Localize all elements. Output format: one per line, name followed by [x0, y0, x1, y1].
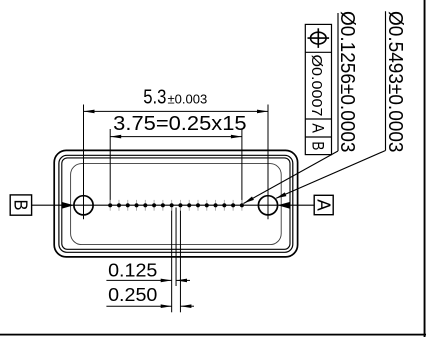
svg-text:B: B	[308, 141, 327, 150]
svg-text:A: A	[313, 199, 333, 211]
svg-text:Ø0.0007: Ø0.0007	[308, 55, 325, 117]
svg-text:A: A	[308, 123, 327, 133]
svg-text:Ø0.5493±0.0003: Ø0.5493±0.0003	[384, 11, 406, 153]
svg-text:B: B	[11, 200, 31, 211]
svg-text:Ø0.1256±0.0003: Ø0.1256±0.0003	[336, 11, 358, 153]
svg-text:0.250: 0.250	[108, 285, 157, 305]
svg-text:±0.003: ±0.003	[168, 91, 208, 106]
svg-text:0.125: 0.125	[108, 261, 157, 281]
svg-text:3.75=0.25x15: 3.75=0.25x15	[113, 113, 246, 135]
svg-text:5.3: 5.3	[143, 86, 166, 108]
